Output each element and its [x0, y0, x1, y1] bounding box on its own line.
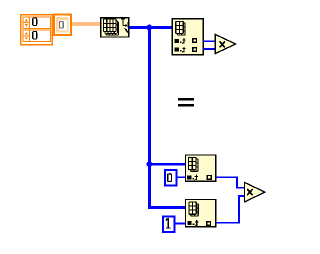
wire: blue matrix trunk vertical — [148, 26, 151, 208]
multiply function U6 (bottom) — [245, 182, 265, 202]
U2 index glyph row 2 — [175, 47, 186, 53]
array control: spin down arrow row 1 — [25, 24, 29, 27]
node U4: Matrix Size (lower 1) — [186, 155, 216, 181]
U1 axis glyph — [121, 19, 130, 34]
node U2: Matrix Size function box (top) — [172, 19, 203, 55]
U2 matrix grid glyph — [175, 21, 186, 36]
U4 index glyph — [187, 175, 198, 181]
node U1: Array To Matrix function box — [101, 18, 129, 37]
equals label — [178, 98, 194, 107]
constant 0 — [165, 170, 176, 185]
wire: constant 0 to U4 — [177, 176, 186, 178]
wire: U5 output elbow to multiply (bottom) — [216, 195, 245, 224]
array control: spin up arrow row 1 — [25, 19, 29, 22]
U2 output square row 1 — [193, 39, 197, 43]
U1 matrix grid glyph (3 stacked layers, 4x3 cells) — [103, 18, 119, 35]
U2 index glyph row 1 — [175, 38, 186, 44]
wire: orange 2D-array wire from array element to Array-To-Matrix node — [71, 22, 101, 25]
wire: blue matrix wire top horizontal run — [129, 26, 173, 29]
multiply function U3 (top) — [215, 34, 236, 53]
wire: blue branch to lower node 2 — [148, 206, 186, 209]
wire: blue branch to lower node 1 — [148, 163, 186, 166]
array control: index value row 2 — [33, 31, 37, 39]
array control: spin down arrow row 2 — [25, 37, 29, 40]
U2 output square row 2 — [193, 48, 197, 52]
U5 index glyph — [187, 220, 198, 226]
constant 1 — [163, 217, 174, 232]
U4 matrix grid glyph — [188, 157, 199, 172]
array control: index display row 1 box — [23, 17, 50, 29]
junction J1 — [146, 25, 152, 31]
U4 output square — [207, 176, 211, 180]
array element display frame — [54, 15, 71, 35]
array control: spin up arrow row 2 — [25, 32, 29, 35]
array control: index display row 2 box — [23, 30, 50, 42]
array element value (dimmed 0) — [59, 22, 63, 29]
wire: U4 output elbow to multiply (bottom) — [216, 176, 245, 188]
U1 axis glyph arrowheads — [124, 22, 129, 31]
array control: outer frame — [21, 15, 52, 45]
array control: index value row 1 — [33, 18, 37, 26]
node U5: Matrix Size (lower 2) — [186, 200, 216, 227]
wire: constant 1 to U5 — [175, 223, 186, 225]
U5 matrix grid glyph — [188, 202, 199, 217]
junction J2 — [146, 161, 152, 167]
U5 output square — [207, 222, 211, 226]
wire: U2 row outputs to multiply (top) — [203, 40, 215, 50]
